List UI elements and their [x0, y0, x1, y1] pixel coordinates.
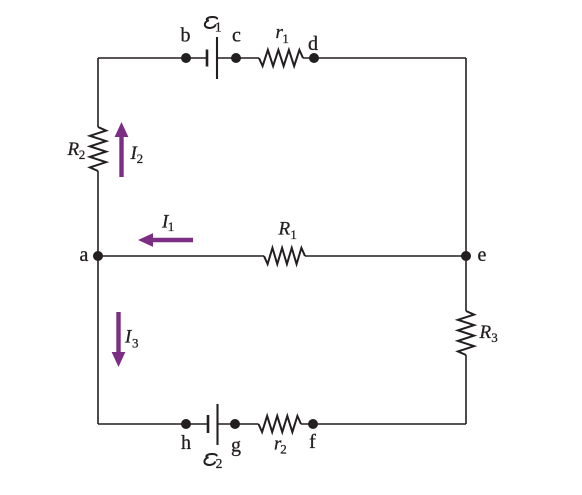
svg-text:1: 1: [215, 20, 222, 35]
svg-text:e: e: [478, 244, 487, 266]
svg-text:3: 3: [491, 330, 498, 345]
svg-text:1: 1: [168, 219, 175, 234]
svg-text:2: 2: [137, 151, 144, 166]
svg-text:R: R: [67, 139, 80, 160]
svg-text:1: 1: [290, 227, 297, 242]
svg-text:f: f: [309, 431, 316, 453]
svg-text:h: h: [181, 432, 191, 454]
svg-text:R: R: [479, 322, 492, 343]
svg-text:g: g: [231, 435, 241, 457]
svg-text:a: a: [80, 244, 89, 266]
svg-text:c: c: [232, 25, 241, 47]
svg-text:1: 1: [282, 31, 289, 46]
svg-text:R: R: [278, 219, 291, 240]
svg-text:d: d: [308, 33, 318, 55]
svg-text:2: 2: [216, 456, 223, 471]
svg-text:2: 2: [280, 442, 287, 457]
svg-text:b: b: [181, 25, 191, 47]
svg-text:3: 3: [132, 336, 139, 351]
svg-text:2: 2: [79, 147, 86, 162]
